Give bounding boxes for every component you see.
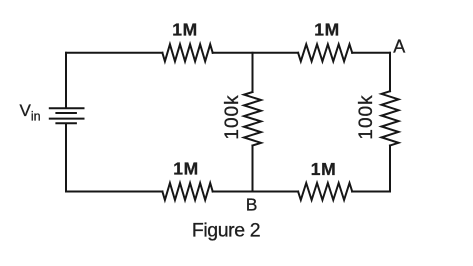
resistor R2 1M top-right (298, 44, 352, 61)
battery V_in short plate upper (56, 112, 76, 114)
resistor R5 100k middle (244, 92, 261, 146)
wire right branch upper (node A down) (389, 53, 391, 91)
battery V_in short plate bottom (56, 122, 76, 124)
wire top-right segment to node A (352, 52, 390, 54)
wire right branch lower (389, 146, 391, 192)
battery V_in long plate lower (50, 118, 84, 120)
resistor R6 100k right (382, 91, 399, 145)
wire bottom-left segment (66, 191, 162, 193)
resistor R4 1M bottom-right (298, 183, 352, 200)
wire top-middle segment (213, 52, 298, 54)
battery V_in long plate top (50, 107, 84, 109)
svg-text:1M: 1M (314, 20, 340, 40)
svg-text:1M: 1M (311, 159, 337, 179)
svg-text:1M: 1M (172, 20, 198, 40)
resistor R3 1M bottom-left (162, 183, 212, 200)
wire left upper (source to top wire) (65, 53, 67, 108)
wire middle branch lower (252, 146, 254, 192)
wire bottom-middle segment to node B (213, 191, 298, 193)
wire bottom-right segment (352, 191, 390, 193)
svg-text:B: B (246, 195, 258, 215)
svg-text:Figure 2: Figure 2 (192, 220, 260, 242)
svg-text:A: A (393, 36, 405, 56)
svg-text:100k: 100k (356, 94, 377, 139)
wire middle branch upper (252, 53, 254, 92)
wire top-left segment (66, 52, 162, 54)
wire left lower (source to bottom wire) (65, 124, 67, 192)
svg-text:Vin: Vin (20, 101, 41, 124)
svg-text:100k: 100k (222, 94, 243, 139)
resistor R1 1M top-left (162, 44, 212, 61)
svg-text:1M: 1M (173, 158, 199, 178)
